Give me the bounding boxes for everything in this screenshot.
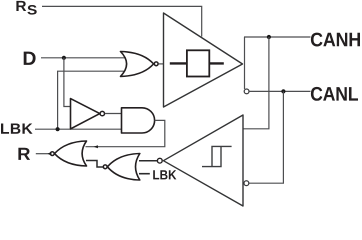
slope control box inside driver xyxy=(187,50,209,76)
wire R to NOR1 output bubble xyxy=(36,153,50,155)
wire RS to driver top xyxy=(42,6,202,36)
bubble on receiver minus input xyxy=(244,181,249,186)
wire NOR gate bottom input from LBK line xyxy=(58,71,125,129)
wire LBK to AND gate bottom input xyxy=(35,128,122,130)
wire receiver bubble to NOR2 top input xyxy=(139,160,157,162)
label LBK small xyxy=(153,170,176,179)
driver output bus vertical xyxy=(244,37,246,89)
wire NOR2 output to NOR1 bottom input xyxy=(86,161,103,168)
wire inverter output to AND gate xyxy=(105,113,122,115)
label CANL xyxy=(311,87,358,101)
junction dot CANL xyxy=(281,89,285,93)
wire CANL xyxy=(249,90,311,92)
NOR gate 1 (R output) pointing left xyxy=(50,141,86,166)
receiver comparator triangle xyxy=(163,115,243,206)
junction dot on D wire xyxy=(62,56,66,60)
arrowhead on feedback wire xyxy=(94,145,98,148)
wire AND output feedback to R NOR gate xyxy=(86,120,165,146)
junction dot on LBK wire xyxy=(56,127,60,131)
hysteresis symbol xyxy=(202,146,232,166)
label R xyxy=(18,148,30,160)
label LBK xyxy=(1,124,33,134)
label CANH xyxy=(311,33,360,47)
wire CANL down to receiver minus input xyxy=(249,91,284,183)
thick line through slope control box xyxy=(170,62,224,64)
wire D to NOR gate top input xyxy=(41,57,125,59)
wire D junction down to inverter input xyxy=(64,58,71,107)
NOR gate 2 (loopback) pointing left xyxy=(103,154,140,181)
AND gate xyxy=(122,108,155,133)
bubble on receiver output xyxy=(157,158,162,163)
wire NOR output to driver xyxy=(159,63,164,65)
bubble on CANL driver output xyxy=(244,89,249,94)
driver amplifier triangle xyxy=(164,13,243,107)
stub NOR2 bottom input xyxy=(139,173,150,175)
label RS xyxy=(16,1,36,15)
inverter on LBK branch xyxy=(71,99,105,129)
label D xyxy=(24,52,36,65)
wire CANH down to receiver plus input xyxy=(243,37,269,129)
arrowhead on R output xyxy=(48,152,52,156)
NOR gate at D input xyxy=(121,52,159,77)
junction dot CANH xyxy=(267,35,271,39)
wire CANH xyxy=(244,36,311,38)
